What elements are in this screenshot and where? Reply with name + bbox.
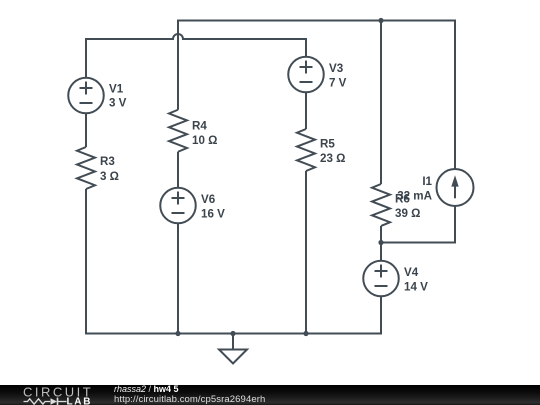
svg-text:R5: R5: [320, 138, 335, 151]
wire: top rail y=20.5 with R4 branch lead and I1 upper lead: [178, 21, 455, 170]
svg-text:V4: V4: [404, 266, 419, 279]
voltage source V1: [68, 78, 104, 114]
svg-text:V6: V6: [201, 193, 216, 206]
junction dot node B: [378, 240, 383, 245]
svg-text:16 V: 16 V: [201, 208, 225, 221]
svg-text:LAB: LAB: [67, 396, 93, 405]
label R4 10ohm: [192, 120, 217, 148]
svg-text:V3: V3: [329, 62, 344, 75]
footer bar: [0, 385, 540, 405]
wire: R5 bottom to bottom rail: [305, 171, 307, 335]
label R5 23ohm: [320, 138, 345, 166]
label R3 3ohm: [100, 155, 119, 183]
svg-text:V1: V1: [109, 83, 124, 96]
svg-text:R4: R4: [192, 120, 207, 133]
svg-text:39 Ω: 39 Ω: [395, 207, 420, 220]
label R6 39ohm: [395, 193, 420, 221]
svg-text:I1: I1: [422, 175, 432, 188]
svg-text:32 mA: 32 mA: [397, 190, 432, 203]
svg-text:23 Ω: 23 Ω: [320, 152, 345, 165]
current source I1: [437, 169, 474, 206]
wire: V3 to R5: [305, 93, 307, 130]
wire: V1 to R3: [85, 114, 87, 148]
label V3 7V: [329, 62, 347, 90]
svg-text:R3: R3: [100, 155, 115, 168]
wire: R6 branch from top rail: [380, 20, 382, 185]
label V6 16V: [201, 193, 225, 221]
svg-text:7 V: 7 V: [329, 77, 347, 90]
ground symbol: [219, 334, 247, 364]
wire: V6 bottom to bottom rail: [177, 224, 179, 335]
svg-text:3 V: 3 V: [109, 97, 127, 110]
wire: R6 bottom to node B: [380, 226, 382, 243]
junction dot bottom rail x=306: [303, 331, 308, 336]
wire: R4 to V6: [177, 152, 179, 188]
svg-text:10 Ω: 10 Ω: [192, 134, 217, 147]
label V1 3V: [109, 83, 127, 110]
svg-text:3 Ω: 3 Ω: [100, 170, 119, 183]
junction dot bottom rail ground: [230, 331, 235, 336]
CircuitLab logo: [0, 385, 100, 405]
voltage source V3: [288, 57, 324, 93]
wire: node-A run, V1 top lead, horizontal y=39 with hop over x=178, V3 top lead: [86, 34, 306, 78]
junction dot at top rail x=381: [378, 18, 383, 23]
label V4 14V: [404, 266, 428, 294]
voltage source V6: [160, 188, 196, 224]
svg-text:14 V: 14 V: [404, 281, 428, 294]
label I1 32mA: [397, 175, 432, 203]
voltage source V4: [363, 261, 399, 297]
resistor R5: [297, 129, 315, 171]
junction dot bottom rail x=178: [175, 331, 180, 336]
resistor R6: [372, 184, 390, 226]
resistor R4: [169, 110, 187, 152]
wire: R3 bottom lead, bottom rail y=333.5, V4 bottom lead: [86, 189, 381, 334]
resistor R3: [77, 147, 95, 189]
wire: node B to V4: [380, 242, 382, 261]
footer text: [114, 385, 265, 404]
wire: I1 bottom lead to node B: [381, 206, 455, 243]
